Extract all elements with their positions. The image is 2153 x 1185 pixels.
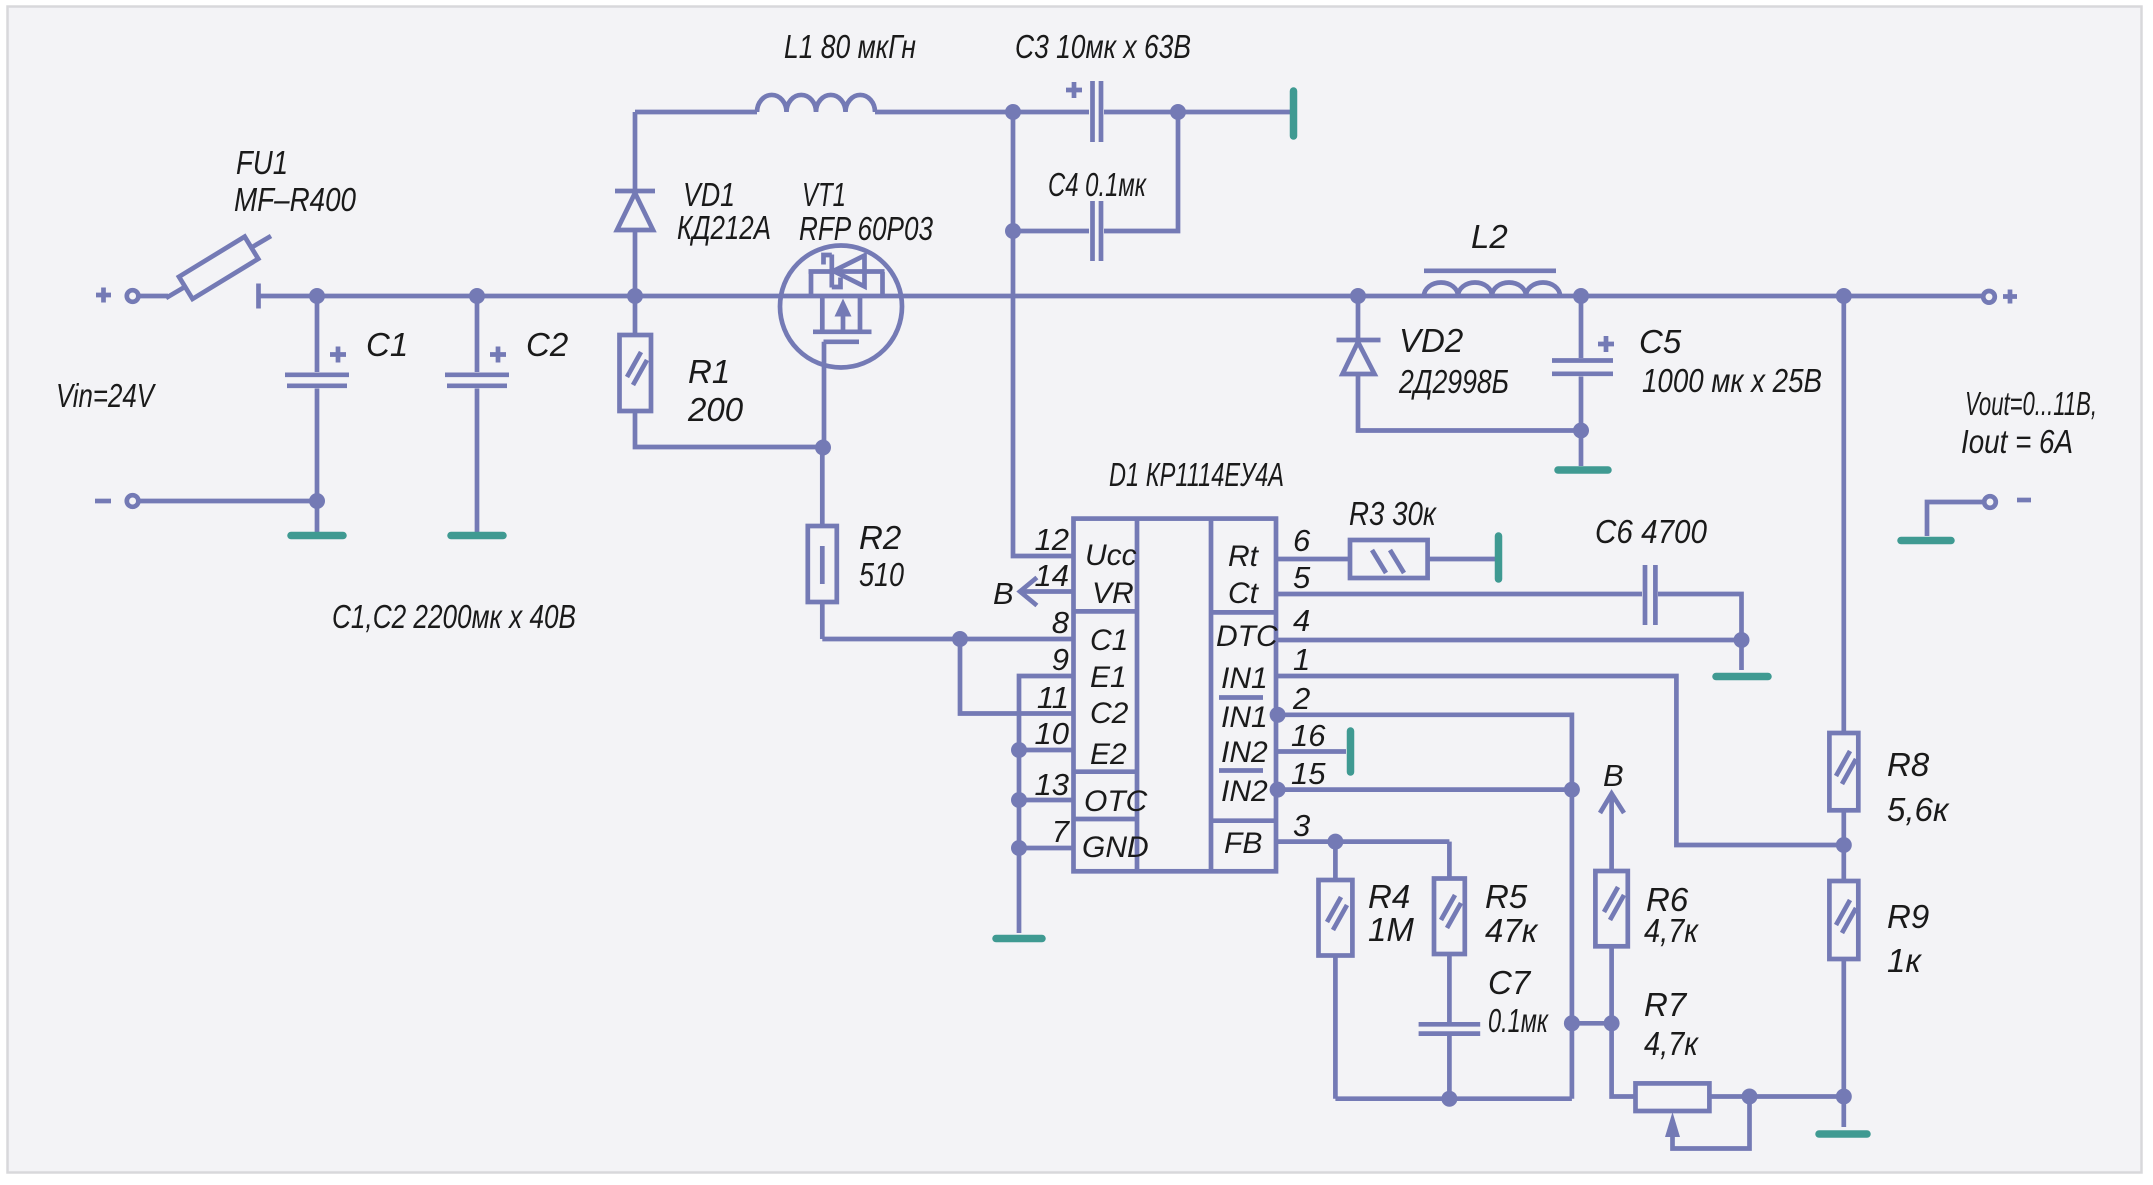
pin label IN1 inverted (with overline) [1219, 698, 1268, 735]
wire R2 to IC pin 8 [822, 637, 1073, 642]
inductor L2 [1424, 271, 1560, 296]
svg-text:R4: R4 [1368, 878, 1410, 915]
wire tap to pin2/15 line [1572, 1021, 1612, 1026]
svg-text:1М: 1М [1368, 911, 1414, 948]
svg-text:VT1: VT1 [802, 176, 846, 213]
junction dot DTC/C6 [1734, 632, 1750, 648]
node: output minus terminal [1984, 496, 2031, 508]
inductor L1 80 мкГн [635, 95, 1013, 112]
svg-text:R8: R8 [1887, 746, 1930, 783]
ground below C6/DTC [1716, 673, 1768, 681]
wire: main positive rail [259, 294, 1983, 299]
junction dot pin2/pin15 tie [1564, 782, 1580, 798]
junction dot on pin2/15 line at divider tap [1564, 1015, 1580, 1031]
svg-text:C4 0.1мк: C4 0.1мк [1048, 166, 1147, 203]
svg-text:4,7к: 4,7к [1644, 1025, 1699, 1062]
svg-text:10: 10 [1035, 716, 1069, 751]
junction dot pin8 node [952, 631, 968, 647]
capacitor C2 (electrolytic) [445, 296, 509, 532]
op-amp / PWM controller U1: D1 КР1114ЕУ4А (IC box) [1074, 519, 1277, 872]
resistor R1 200 [620, 296, 824, 447]
svg-text:C2: C2 [1090, 697, 1129, 730]
junction dot pin 10 [1011, 742, 1027, 758]
wire bottom of R4/C7 to pin2/15 node [1335, 1096, 1572, 1101]
diode VD2 2Д2998Б [1337, 296, 1582, 431]
wire pin 14 with net arrow B [1020, 578, 1074, 606]
svg-text:GND: GND [1082, 831, 1149, 864]
resistor R8 5,6к [1829, 296, 1858, 845]
potentiometer R7 4,7к [1612, 1023, 1844, 1148]
svg-text:R7: R7 [1644, 986, 1688, 1023]
ground (side bar) right of R3 [1495, 536, 1503, 579]
wire pin 1 (IN1) to R8/R9 junction [1276, 676, 1844, 845]
svg-text:200: 200 [687, 391, 744, 428]
diode VD1 КД212А [615, 112, 655, 296]
svg-text:E2: E2 [1090, 738, 1127, 771]
junction dot pin 7 [1011, 840, 1027, 856]
ground below IC [996, 935, 1042, 943]
svg-text:11: 11 [1037, 680, 1069, 715]
ground below C5 [1558, 466, 1608, 474]
resistor R6 4,7к [1595, 871, 1627, 1023]
capacitor C5 1000мк x 25В (electrolytic) [1552, 296, 1614, 466]
node: input minus terminal [95, 495, 138, 507]
wire minus terminal to ground [1927, 502, 1983, 536]
svg-text:FB: FB [1224, 827, 1262, 860]
svg-text:RFP 60P03: RFP 60P03 [799, 210, 934, 247]
svg-text:Ct: Ct [1228, 577, 1260, 610]
svg-text:8: 8 [1052, 605, 1070, 640]
svg-text:7: 7 [1052, 814, 1071, 849]
wire from + terminal to fuse [139, 294, 168, 299]
svg-text:VR: VR [1092, 577, 1134, 610]
wire pin 5 to C6 [1276, 592, 1642, 597]
capacitor C7 0.1мк [1419, 1024, 1481, 1098]
svg-text:47к: 47к [1485, 912, 1539, 949]
junction dot pot wiper tie [1742, 1089, 1758, 1105]
svg-text:DTC: DTC [1216, 620, 1278, 653]
svg-text:IN2: IN2 [1221, 775, 1268, 808]
svg-text:4,7к: 4,7к [1644, 912, 1699, 949]
svg-text:C1: C1 [1090, 624, 1128, 657]
junction dot pin 13 [1011, 792, 1027, 808]
resistor R3 30к [1350, 540, 1495, 578]
junction dot C4 left [1005, 223, 1021, 239]
wire pin 7 [1019, 846, 1074, 851]
junction dot R8/R9/IN1 [1836, 837, 1852, 853]
svg-text:IN1: IN1 [1221, 662, 1268, 695]
wire pin 2 (IN1 inv) [1276, 715, 1572, 790]
svg-text:R9: R9 [1887, 898, 1929, 935]
wire pin 10 [1019, 748, 1074, 753]
svg-text:12: 12 [1035, 522, 1069, 557]
junction dot R1/gate of VT1 [815, 440, 831, 456]
svg-text:C7: C7 [1488, 964, 1532, 1001]
svg-text:IN2: IN2 [1221, 736, 1268, 769]
svg-text:C5: C5 [1639, 323, 1682, 360]
svg-text:9: 9 [1052, 642, 1069, 677]
svg-text:C3 10мк x 63В: C3 10мк x 63В [1015, 28, 1191, 65]
svg-text:C1,C2 2200мк x 40В: C1,C2 2200мк x 40В [332, 598, 576, 635]
svg-text:VD1: VD1 [683, 176, 735, 213]
net arrow B above R6 [1600, 794, 1624, 871]
ground (side bar) right of C3 [1290, 91, 1298, 136]
junction dot C3/C4 right [1170, 104, 1186, 120]
resistor R5 47к [1434, 842, 1465, 1022]
junction dot R9 bottom / pot wire [1836, 1089, 1852, 1105]
junction dot C5/VD2 bottom [1573, 423, 1589, 439]
resistor R2 510 [808, 448, 837, 640]
svg-text:4: 4 [1293, 603, 1310, 638]
svg-text:Ucc: Ucc [1085, 539, 1137, 572]
pin label IN2 inverted (with overline) [1219, 771, 1268, 809]
svg-text:R5: R5 [1485, 878, 1528, 915]
junction dot L2 right / C5 [1573, 288, 1589, 304]
svg-text:R1: R1 [688, 353, 730, 390]
junction dot C1/rail [309, 288, 325, 304]
wire pin 16 to side ground [1276, 749, 1346, 754]
junction dot VD1/R1/rail [627, 288, 643, 304]
junction dot L1/C3/Ucc [1005, 104, 1021, 120]
svg-text:1к: 1к [1887, 942, 1922, 979]
junction dot rail/R8 [1836, 288, 1852, 304]
svg-text:OTC: OTC [1084, 785, 1148, 818]
ground (side bar) at pin 16 [1347, 731, 1355, 772]
svg-text:B: B [993, 576, 1014, 611]
wire pin 3 (FB) [1276, 839, 1449, 844]
node: input plus terminal [96, 288, 138, 303]
svg-text:IN1: IN1 [1221, 701, 1268, 734]
svg-text:14: 14 [1035, 558, 1069, 593]
svg-text:R3 30к: R3 30к [1349, 495, 1437, 532]
junction dot C7 bottom [1441, 1091, 1457, 1107]
svg-text:Rt: Rt [1228, 540, 1260, 573]
junction dot at pin 15 [1270, 782, 1286, 798]
svg-text:C6 4700: C6 4700 [1595, 513, 1708, 550]
svg-text:C1: C1 [366, 326, 408, 363]
wire pin 6 to R3 [1276, 557, 1350, 562]
svg-text:5,6к: 5,6к [1887, 791, 1950, 828]
node: output plus terminal [1983, 290, 2017, 304]
svg-text:Vout=0...11В,: Vout=0...11В, [1965, 385, 2097, 422]
ground below C2 [451, 532, 503, 540]
svg-text:13: 13 [1035, 767, 1069, 802]
svg-text:1000 мк x 25В: 1000 мк x 25В [1642, 362, 1822, 399]
wire pin8 node down to pin 11 [960, 639, 1074, 714]
wire pin 4 (DTC) [1276, 638, 1742, 643]
svg-text:C2: C2 [526, 326, 568, 363]
junction dot R6/R7 divider tap [1604, 1015, 1620, 1031]
wire minus terminal to C1 [139, 499, 317, 504]
svg-text:L2: L2 [1471, 218, 1508, 255]
svg-text:КД212А: КД212А [677, 209, 771, 246]
resistor R9 1к [1829, 845, 1858, 1127]
wire C3 to ground bar [1178, 110, 1290, 115]
svg-text:510: 510 [859, 556, 905, 593]
svg-text:3: 3 [1293, 808, 1310, 843]
svg-text:6: 6 [1293, 523, 1311, 558]
capacitor C1 (electrolytic) [285, 296, 349, 532]
svg-text:VD2: VD2 [1399, 322, 1463, 359]
svg-text:Vin=24V: Vin=24V [56, 377, 156, 414]
svg-text:FU1: FU1 [236, 144, 288, 181]
ground below output minus [1901, 537, 1951, 545]
junction dot FB/R4 [1327, 834, 1343, 850]
ground below R9 [1819, 1130, 1867, 1138]
svg-text:MF–R400: MF–R400 [234, 181, 357, 218]
wire pin 13 [1019, 798, 1074, 803]
ground below C1 [291, 532, 343, 540]
svg-text:2: 2 [1292, 681, 1310, 716]
wire pin 15 (IN2 inv) [1276, 787, 1572, 792]
resistor R4 1M [1319, 842, 1353, 1099]
capacitor C6 4700 [1645, 565, 1742, 640]
junction dot C2/rail [469, 288, 485, 304]
svg-text:D1 КР1114ЕУ4А: D1 КР1114ЕУ4А [1109, 456, 1284, 493]
svg-text:R2: R2 [859, 519, 901, 556]
wire down to ground [1739, 640, 1744, 670]
transistor VT1 RFP 60P03 (p-MOSFET) [780, 246, 902, 448]
svg-text:15: 15 [1291, 756, 1326, 791]
junction dot L2 left / VD2 [1350, 288, 1366, 304]
svg-text:B: B [1603, 758, 1624, 793]
wire pin 9 to ground rail [1019, 676, 1074, 933]
capacitor C3 10мк x 63В [1013, 81, 1178, 142]
svg-text:L1 80 мкГн: L1 80 мкГн [784, 28, 916, 65]
wire Ucc vertical (C3/C4 to IC pin 12) [1013, 112, 1074, 556]
svg-text:5: 5 [1293, 560, 1311, 595]
svg-text:Iout = 6A: Iout = 6A [1961, 423, 2073, 460]
junction dot at pin 2 [1270, 707, 1286, 723]
capacitor C4 0.1мк [1013, 112, 1178, 261]
wire pin2/15 node down to feedback divider [1570, 790, 1575, 1099]
svg-text:E1: E1 [1090, 661, 1127, 694]
junction dot C1/minus wire [309, 493, 325, 509]
svg-text:0.1мк: 0.1мк [1488, 1002, 1549, 1039]
svg-text:16: 16 [1291, 718, 1326, 753]
svg-text:2Д2998Б: 2Д2998Б [1398, 363, 1509, 400]
fuse FU1 MF-R400 [166, 236, 271, 309]
svg-text:1: 1 [1293, 642, 1310, 677]
